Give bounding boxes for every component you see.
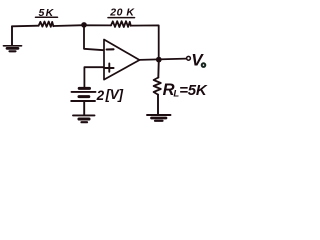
wire (non-inverting input to battery) — [84, 67, 103, 87]
wire (battery to ground) — [83, 101, 85, 115]
node A (junction dot, inverting input node) — [81, 22, 87, 28]
svg-text:[V]: [V] — [105, 87, 124, 102]
plus input sign — [105, 64, 113, 72]
label 20K — [108, 7, 135, 19]
label 2[V] — [96, 87, 124, 103]
op-amp U1 — [104, 40, 140, 80]
wire (node B down to RL) — [157, 60, 160, 78]
ground (below RL) — [147, 115, 171, 121]
wire (left rail from ground to R1) — [12, 25, 39, 28]
resistor R2 (20K feedback) — [111, 21, 131, 27]
wire (RL to ground) — [157, 95, 159, 114]
minus input sign — [107, 48, 114, 50]
label Vo — [191, 50, 205, 69]
wire (R2 to output corner) — [131, 25, 159, 57]
label 5K — [36, 7, 58, 19]
resistor RL (load, vertical) — [154, 78, 161, 95]
wire (op-amp output to Vo) — [140, 59, 187, 60]
terminal Vo (open circle) — [187, 56, 191, 60]
label RL = 5K — [163, 81, 208, 99]
ground (top-left input ground) — [4, 26, 22, 51]
svg-text:20 K: 20 K — [109, 7, 135, 19]
node B (output junction dot) — [156, 57, 162, 63]
resistor R1 (5K) — [39, 22, 54, 27]
wire (R1 to node A) — [53, 24, 84, 27]
wire (node A down to inverting input) — [84, 25, 104, 50]
wire (node A to R2) — [84, 24, 111, 26]
ground (below battery) — [73, 115, 95, 122]
svg-text:=5K: =5K — [179, 82, 208, 99]
svg-text:2: 2 — [96, 88, 105, 103]
battery B1 (2 V) — [71, 88, 95, 101]
